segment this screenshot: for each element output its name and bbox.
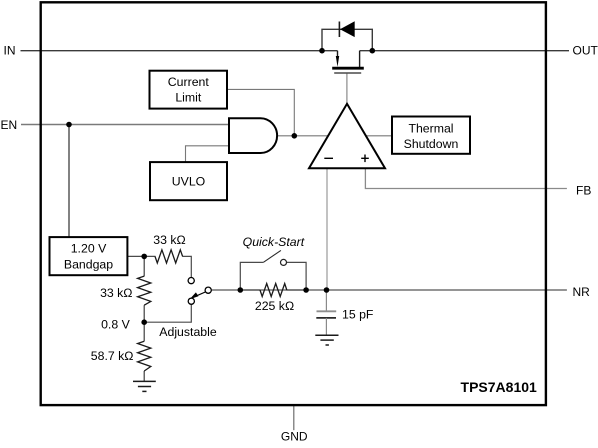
- transistor Q1 PMOS pass element: [332, 51, 364, 73]
- svg-text:Current: Current: [168, 75, 210, 89]
- box Thermal Shutdown: [392, 117, 470, 154]
- node OUT-mosfet junction: [370, 48, 376, 54]
- box UVLO: [150, 162, 227, 200]
- svg-text:EN: EN: [1, 118, 18, 132]
- wire bandgap output: [127, 255, 155, 257]
- wire EN to bandgap: [68, 125, 70, 238]
- svg-text:OUT: OUT: [573, 43, 598, 57]
- wire EN line: [21, 124, 230, 126]
- svg-text:225 kΩ: 225 kΩ: [255, 299, 294, 313]
- svg-text:Quick-Start: Quick-Start: [243, 235, 305, 249]
- svg-text:Adjustable: Adjustable: [159, 325, 217, 339]
- resistor 33k vertical: [138, 276, 151, 305]
- wire 225k leads: [240, 289, 306, 291]
- wire resistor chain vertical lead 1: [143, 256, 145, 276]
- resistor 58.7k: [138, 341, 151, 371]
- svg-text:UVLO: UVLO: [172, 175, 206, 189]
- svg-text:15 pF: 15 pF: [342, 307, 374, 321]
- wire NR node to capacitor: [325, 290, 327, 311]
- wire resistor chain vertical lead 2: [143, 305, 145, 341]
- border frame: [41, 2, 546, 405]
- node quick-start right junction: [303, 287, 309, 293]
- wire quick-start left branch: [240, 262, 263, 290]
- svg-text:1.20 V: 1.20 V: [71, 242, 107, 256]
- svg-text:33 kΩ: 33 kΩ: [100, 286, 132, 300]
- wire AND output to op-amp: [277, 135, 329, 137]
- ground (resistor chain): [133, 381, 156, 391]
- svg-text:FB: FB: [576, 184, 591, 198]
- switch S2 quick-start: [264, 250, 287, 265]
- capacitor C 15pF: [316, 311, 336, 335]
- svg-text:Bandgap: Bandgap: [64, 257, 113, 271]
- wire IN line: [21, 50, 338, 52]
- op-amp U1 error amplifier: [309, 104, 385, 168]
- wire op-amp minus input to NR node: [326, 168, 328, 290]
- resistor 225k: [260, 284, 287, 297]
- wire quick-start right branch: [287, 262, 307, 290]
- box Current Limit: [150, 71, 228, 109]
- node bandgap output junction: [141, 254, 147, 260]
- wire OUT line: [360, 50, 569, 52]
- wire op-amp to thermal shutdown: [365, 135, 392, 137]
- node AND output junction: [292, 133, 298, 139]
- wire switch bottom to 0.8V node: [144, 304, 191, 322]
- svg-text:NR: NR: [573, 285, 591, 299]
- wire op-amp output to gate: [346, 73, 348, 106]
- wire UVLO to AND: [186, 146, 230, 162]
- AND gate U2: [229, 118, 277, 153]
- diode D1 (reverse body diode): [322, 21, 372, 50]
- wire FB line: [365, 168, 567, 188]
- node quick-start left junction: [238, 287, 244, 293]
- box 1.20V Bandgap: [50, 237, 128, 275]
- resistor 33k horizontal: [155, 250, 183, 263]
- svg-text:Limit: Limit: [175, 91, 202, 105]
- switch S1 adjustable selector: [188, 278, 211, 305]
- wire NR line: [211, 289, 567, 291]
- svg-text:GND: GND: [281, 430, 308, 444]
- node EN junction: [66, 122, 72, 128]
- node 0.8V junction: [141, 319, 147, 325]
- svg-text:33 kΩ: 33 kΩ: [153, 233, 185, 247]
- svg-text:Thermal: Thermal: [408, 121, 453, 135]
- svg-text:58.7 kΩ: 58.7 kΩ: [91, 349, 134, 363]
- svg-text:TPS7A8101: TPS7A8101: [461, 379, 537, 395]
- svg-text:IN: IN: [4, 43, 16, 57]
- wire 33k horizontal to switch top: [182, 256, 191, 277]
- ground (capacitor): [315, 335, 338, 345]
- node NR junction: [324, 287, 330, 293]
- node IN-mosfet junction: [319, 48, 325, 54]
- svg-text:Shutdown: Shutdown: [404, 137, 459, 151]
- wire current limit to AND output: [227, 89, 294, 135]
- wire GND stub: [293, 405, 295, 430]
- wire resistor chain vertical lead 3: [143, 371, 145, 382]
- svg-text:0.8 V: 0.8 V: [101, 317, 131, 331]
